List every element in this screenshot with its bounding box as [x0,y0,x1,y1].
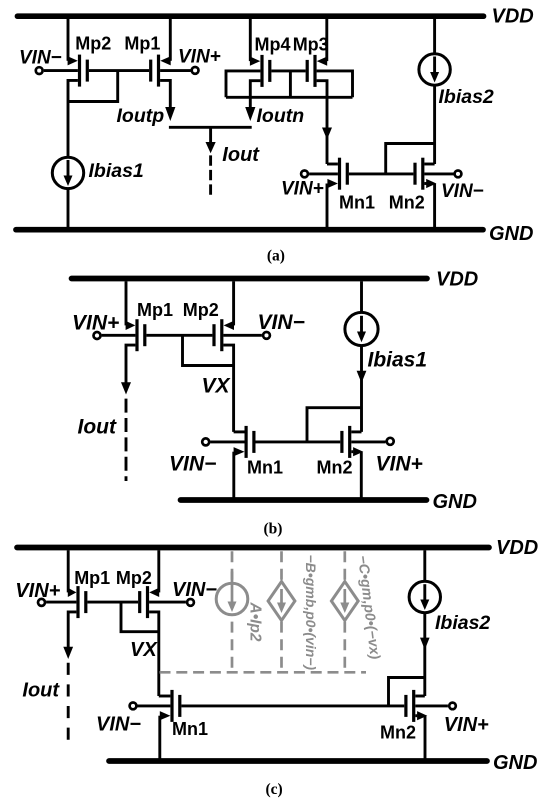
wire Mp4 body loop [226,71,260,97]
wire Mp2 source from VDD (c) [149,550,159,597]
wire Mp2 source from VDD (b) [224,281,234,330]
svg-text:GND: GND [489,223,533,245]
wire Mp1 drain / Ioutp arrow [160,80,175,121]
wire Mp4 source from VDD [250,19,260,66]
dashed drop B [280,551,283,672]
transistor Mp2 [80,55,88,87]
svg-text:Mp3: Mp3 [293,34,329,54]
wire Mp1 drain / Iout arrow (b) [121,345,135,481]
terminal VIN- (b) [263,332,270,339]
wire Mp3 drain [317,81,327,98]
wire Iout arrow (a) [206,127,216,196]
wire Mp3 source from VDD [317,19,327,66]
svg-text:VIN−: VIN− [258,311,305,334]
svg-text:GND: GND [493,752,537,774]
current source Ibias1 (b) [345,281,378,432]
wire Mn1 body to VIN+ [309,172,338,175]
dashed drop C [343,551,346,672]
svg-text:Mp2: Mp2 [183,300,219,320]
wire Mp2 body to VIN- (c) [149,601,186,604]
transistor Mn2 (b) [342,426,350,458]
transistor Mp3 [307,55,315,87]
wire Mn2 body to VIN+ (b) [351,440,385,443]
wire Mp2 source from VDD [68,19,78,65]
terminal VIN- (a right) [455,171,462,178]
wire VX box (c) [121,602,159,632]
wire gates drop to node [289,71,292,97]
wire Mp1-Mp2 gates (b) [146,334,212,337]
svg-text:(b): (b) [264,521,283,538]
wire Mn1-Mn2 gates (b) [256,440,341,443]
svg-text:A•Ip2: A•Ip2 [247,602,264,642]
transistor Mp1 [151,55,159,87]
wire Mp2-Mp1 gates [89,69,149,72]
current source Ibias2 (c) [409,550,440,696]
wire Mp3 body loop [317,71,353,97]
svg-text:Ibias1: Ibias1 [368,349,428,372]
wire Mn2 drain stub (c) [415,695,425,698]
transistor Mn1 (c) [172,690,180,722]
svg-text:Mn1: Mn1 [247,457,283,477]
wire Mp1 body to VIN+ [160,69,191,72]
wire Mp2 body to VIN- (b) [223,334,262,337]
svg-text:VIN−: VIN− [19,47,62,68]
svg-text:VIN−: VIN− [441,181,484,202]
wire Mn2 source to GND (b) [351,447,363,500]
svg-text:Mn2: Mn2 [317,457,353,477]
wire Mp2 drain down to Mn1 (c) [149,612,159,696]
wire Mp4 drain / Ioutn arrow [245,81,260,121]
wire VX box (b) [183,335,234,365]
gray dependent-source network (c) [160,551,367,672]
svg-text:Ioutp: Ioutp [117,105,165,127]
svg-text:VDD: VDD [492,5,534,27]
terminal VIN+ (b) [94,332,101,339]
svg-text:Ibias1: Ibias1 [89,160,144,182]
svg-text:Mn1: Mn1 [339,192,375,212]
svg-text:VDD: VDD [496,537,538,559]
svg-text:Mp4: Mp4 [255,34,291,54]
svg-text:Mp1: Mp1 [137,300,173,320]
svg-text:Ioutn: Ioutn [257,105,305,127]
transistor Mn2 (a) [415,158,423,190]
svg-text:Mn1: Mn1 [172,719,208,739]
wire Mp1 source from VDD (b) [126,281,136,330]
transistor Mn1 (a) [340,158,348,190]
wire Mn2 body to VIN+ (c) [415,704,448,707]
wire Mn2 gate-drain box (c) [389,678,425,706]
wire gates to drain node [68,71,118,102]
transistor Mn1 (b) [246,426,254,458]
wire Mn2 gate-drain box (b) [307,408,362,442]
svg-text:VIN+: VIN+ [178,47,221,68]
svg-text:VIN−: VIN− [96,714,141,736]
node line Ioutp-Ioutn [169,126,252,129]
svg-text:VIN+: VIN+ [15,580,60,602]
svg-text:Mp2: Mp2 [116,568,152,588]
svg-text:Ibias2: Ibias2 [435,612,490,634]
wire Mp1 body to VIN+ (c) [46,601,76,604]
current source Ibias1 (a) [52,102,83,230]
svg-text:VX: VX [130,639,158,661]
wire Mn1 drain stub (c) [159,695,171,698]
dashed drop A [231,551,234,672]
svg-text:−B•gmb,p0•(vin−): −B•gmb,p0•(vin−) [303,555,319,671]
wire Mn2 source to GND [424,179,436,230]
transistor Mp2 (b) [214,319,222,351]
current source A*Ip2 [216,572,248,615]
svg-text:Mp1: Mp1 [74,568,110,588]
svg-text:Iout: Iout [78,416,117,439]
svg-text:Mn2: Mn2 [389,192,425,212]
svg-text:Mn2: Mn2 [380,723,416,743]
svg-text:GND: GND [433,491,477,513]
terminal VIN- (c) [187,599,194,606]
dependent source B [268,582,295,621]
terminal VIN+ (a bottom) [301,171,308,178]
terminal VIN- (b bottom) [202,438,209,445]
svg-text:VIN+: VIN+ [376,453,423,476]
svg-text:VIN+: VIN+ [444,714,489,736]
terminal VIN- (a) [36,67,43,74]
VDD rail (a) [18,13,484,19]
wire Mp2 drain [68,80,78,101]
wire Mn1 body to VIN- (c) [138,704,171,707]
wire Mn2 drain stub (b) [351,430,361,433]
svg-text:Mp2: Mp2 [75,33,111,53]
dependent source C [331,582,358,621]
node line Mp4-Mp3 drains [226,96,353,99]
transistor Mp1 (c) [78,586,86,618]
wire Mn1 source to GND [327,179,338,230]
labels figure (c) [15,537,538,798]
svg-text:VIN+: VIN+ [72,312,119,335]
svg-text:Mp1: Mp1 [124,33,160,53]
svg-text:Iout: Iout [222,144,260,166]
labels figure (a) [19,5,534,264]
labels figure (b) [72,268,478,537]
svg-text:VIN+: VIN+ [281,179,324,200]
wire Mp1 source from VDD [160,19,170,65]
wire Mn1 drain stub (b) [234,430,245,433]
wire Mn1 source to GND (b) [234,447,245,500]
svg-text:Iout: Iout [22,680,60,702]
transistor Mp2 (c) [140,586,148,618]
wire Mn2 body to VIN- [424,172,453,175]
wire Mp1 source from VDD (c) [68,550,77,597]
GND rail (a) [16,227,483,233]
terminal VIN+ (b bottom) [387,438,394,445]
svg-text:(c): (c) [266,781,283,798]
wire Mp1 drain / Iout arrow (c) [63,612,76,743]
wire Mn1-Mn2 gates (c) [181,704,404,707]
svg-text:VIN−: VIN− [172,579,217,601]
terminal VIN+ (a) [192,67,199,74]
wire Mp2 drain down to Mn1 (b) [223,345,233,432]
dashed node line (c) [160,671,367,674]
current source Ibias2 (a) [419,19,450,164]
terminal VIN+ (c) [38,599,45,606]
svg-text:(a): (a) [267,248,285,265]
svg-text:VX: VX [202,375,232,398]
terminal VIN+ (c bottom) [449,703,456,710]
transistor Mn2 (c) [406,690,414,722]
wire Mn1-Mn2 gates [349,172,414,175]
VDD rail (c) [17,545,489,551]
wire Mp2 body to VIN- [44,69,78,72]
wire Mn1 body to VIN- (b) [210,440,244,443]
wire Mp1-Mp2 gates (c) [87,601,138,604]
wire Mp3 drain to Mn1 drain with arrow [322,97,332,164]
wire Mp4-Mp3 gates [271,69,305,72]
wire Mp1 body to VIN+ (b) [102,334,136,337]
wire Mn2 gate-drain box [386,144,435,174]
wire Mn1 drain stub [327,163,338,166]
wire Mn1 source to GND (c) [160,711,171,761]
svg-text:Ibias2: Ibias2 [439,86,494,108]
transistor Mp4 [262,55,270,87]
GND rail (b) [181,497,427,503]
svg-text:VIN−: VIN− [169,453,216,476]
svg-text:VDD: VDD [436,268,478,290]
VDD rail (b) [72,276,428,282]
GND rail (c) [109,758,487,764]
transistor Mp1 (b) [137,319,145,351]
terminal VIN- (c bottom) [130,703,137,710]
wire Mn2 drain stub [424,163,434,166]
wire Mn2 source to GND (c) [415,711,427,761]
